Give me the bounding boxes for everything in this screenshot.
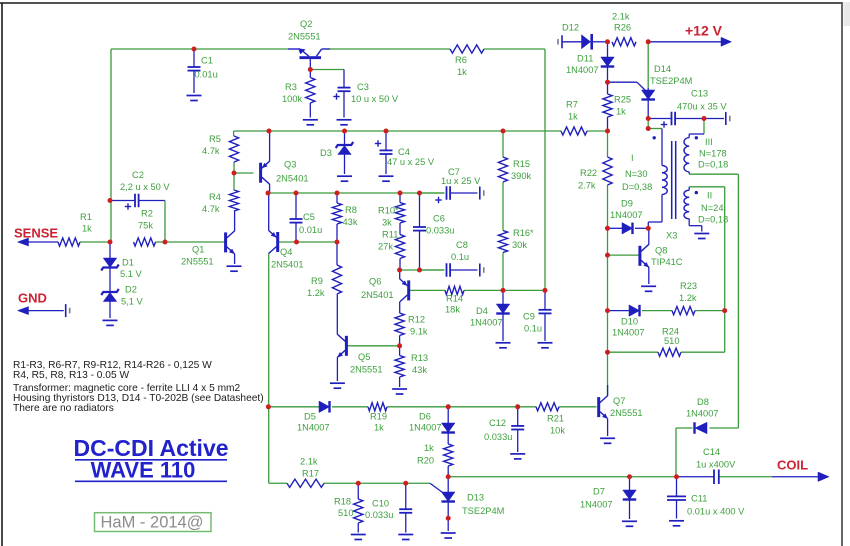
transistor Q2 2N5551 bbox=[288, 49, 322, 60]
svg-text:1N4007: 1N4007 bbox=[297, 423, 330, 433]
svg-text:2.1k: 2.1k bbox=[612, 12, 630, 22]
svg-text:2.1k: 2.1k bbox=[300, 457, 318, 467]
wire C10 x405.75 bbox=[405, 483, 407, 532]
node R14 R16 bbox=[501, 288, 506, 293]
capacitor C14 bbox=[714, 470, 719, 485]
resistor R24 510 bbox=[658, 348, 681, 356]
svg-text:5,1 V: 5,1 V bbox=[121, 297, 144, 307]
resistor R11 27k bbox=[395, 235, 404, 259]
wire C8 row bbox=[420, 269, 478, 271]
wire Q7 collector bbox=[607, 385, 609, 396]
resistor R5 4.7k bbox=[229, 136, 238, 162]
svg-text:R25: R25 bbox=[614, 95, 631, 105]
svg-text:R21: R21 bbox=[547, 414, 564, 424]
svg-text:COIL: COIL bbox=[777, 458, 808, 473]
node R26 plus12 bbox=[646, 39, 651, 44]
svg-text:1N4007: 1N4007 bbox=[409, 423, 442, 433]
wire Q3 base bbox=[234, 172, 254, 174]
wire Q4 collector long x268.7 bbox=[268, 253, 270, 406]
ground C11 bbox=[669, 521, 684, 526]
wire Q4 emitter up x268.7 bbox=[268, 193, 270, 231]
node R8 bottom bbox=[335, 240, 340, 245]
resistor R1 1k bbox=[58, 238, 80, 246]
wire R12 x399.6 bbox=[399, 302, 401, 346]
wire C12 x517.7 bbox=[517, 407, 519, 452]
svg-text:D3: D3 bbox=[320, 148, 332, 158]
node D12 R26 bbox=[605, 39, 610, 44]
terminal D12 input bbox=[558, 35, 562, 48]
svg-text:1u x 25 V: 1u x 25 V bbox=[441, 176, 481, 186]
node D9 left bbox=[605, 226, 610, 231]
svg-text:2N5551: 2N5551 bbox=[610, 408, 643, 418]
ground C12 bbox=[510, 454, 525, 459]
svg-text:47 u x 25 V: 47 u x 25 V bbox=[387, 157, 435, 167]
wire D1D2 x110 bbox=[109, 242, 111, 318]
node rail131 R15 bbox=[501, 129, 506, 134]
node sense R1 bbox=[108, 240, 113, 245]
svg-text:0.01u x 400 V: 0.01u x 400 V bbox=[687, 507, 745, 517]
svg-text:R13: R13 bbox=[411, 353, 428, 363]
wire Q1 collector bbox=[234, 211, 236, 231]
wire R9 x338 bbox=[336, 242, 338, 334]
label SENSE bbox=[14, 226, 58, 241]
svg-text:2N5401: 2N5401 bbox=[276, 174, 309, 184]
svg-text:C3: C3 bbox=[357, 82, 369, 92]
wire winding I feed bbox=[648, 129, 662, 166]
svg-text:390k: 390k bbox=[511, 171, 532, 181]
capacitor C3 electrolytic bbox=[333, 88, 350, 100]
svg-text:0.033u: 0.033u bbox=[365, 510, 393, 520]
wire winding III bottom bbox=[689, 172, 738, 428]
svg-text:1.2k: 1.2k bbox=[307, 288, 325, 298]
capacitor C7 electrolytic bbox=[435, 186, 450, 203]
svg-text:R2: R2 bbox=[141, 209, 153, 219]
svg-text:C13: C13 bbox=[691, 89, 708, 99]
wire main vertical x607.5 bbox=[607, 42, 609, 396]
transistor Q1 2N5551 bbox=[224, 231, 235, 254]
node D11 R25 bbox=[605, 80, 610, 85]
node rail131 R25 bbox=[605, 129, 610, 134]
wire plus12 bbox=[648, 41, 721, 43]
ground D4 bbox=[496, 343, 511, 348]
wire C11 x676.5 bbox=[676, 477, 678, 519]
svg-text:D2: D2 bbox=[125, 285, 137, 295]
resistor R2 75k bbox=[134, 238, 156, 246]
diode D7 1N4007 bbox=[623, 490, 637, 500]
wire C4 x386 bbox=[385, 131, 387, 174]
ground D1 D2 bbox=[103, 320, 118, 325]
svg-text:C9: C9 bbox=[523, 312, 535, 322]
capacitor C6 bbox=[413, 227, 426, 231]
svg-text:1N4007: 1N4007 bbox=[612, 328, 645, 338]
wire rail y193 bbox=[268, 192, 444, 194]
node rail193 R10 bbox=[398, 191, 403, 196]
capacitor C9 bbox=[539, 310, 552, 314]
arrow SENSE bbox=[18, 238, 29, 246]
svg-text:II: II bbox=[707, 191, 712, 201]
svg-text:4.7k: 4.7k bbox=[202, 204, 220, 214]
svg-text:0.1u: 0.1u bbox=[524, 324, 542, 334]
svg-text:1N4007: 1N4007 bbox=[580, 500, 613, 510]
svg-text:R7: R7 bbox=[566, 100, 578, 110]
wire left vertical x111 bbox=[110, 49, 112, 242]
wire C6 x419 bbox=[419, 193, 421, 270]
diode D12 bbox=[582, 34, 592, 50]
svg-text:R9: R9 bbox=[311, 276, 323, 286]
svg-text:+12 V: +12 V bbox=[685, 23, 723, 39]
diode D9 1N4007 bbox=[622, 223, 633, 235]
ground D13 bbox=[441, 533, 456, 538]
wire rail y406.8 bbox=[268, 406, 596, 408]
resistor R23 1.2k bbox=[672, 307, 695, 315]
wire R5R4 chain x234 bbox=[233, 131, 235, 190]
wire Q3 collector lead bbox=[269, 184, 271, 193]
capacitor C13 electrolytic bbox=[661, 112, 675, 128]
diode D4 1N4007 bbox=[496, 304, 510, 314]
svg-text:1k: 1k bbox=[457, 67, 467, 77]
ground Q8 bbox=[641, 286, 656, 291]
wire Q3 emitter lead bbox=[269, 131, 271, 162]
wire winding II bottom bbox=[689, 219, 702, 232]
resistor R6 1k bbox=[450, 45, 484, 53]
svg-text:D13: D13 bbox=[467, 493, 484, 503]
ground Q1 bbox=[227, 266, 242, 271]
svg-text:2N5551: 2N5551 bbox=[288, 32, 321, 42]
svg-text:2.7k: 2.7k bbox=[578, 181, 596, 191]
resistor R26 2.1k bbox=[612, 38, 636, 46]
ground D3 bbox=[337, 176, 352, 181]
polarity dot winding III bbox=[695, 136, 698, 139]
resistor R22 2.7k bbox=[603, 157, 612, 185]
svg-text:C6: C6 bbox=[433, 214, 445, 224]
svg-text:TIP41C: TIP41C bbox=[651, 257, 683, 267]
svg-text:2,2 u x 50 V: 2,2 u x 50 V bbox=[120, 182, 170, 192]
wire Q6 emitter up bbox=[399, 270, 401, 279]
svg-text:10k: 10k bbox=[550, 426, 565, 436]
wire C3 row bbox=[310, 70, 344, 118]
wire C2 row bbox=[110, 201, 165, 243]
svg-text:D12: D12 bbox=[562, 23, 579, 33]
svg-text:D8: D8 bbox=[697, 397, 709, 407]
node R14 C9 bbox=[543, 288, 548, 293]
node rail477 C11 bbox=[674, 474, 679, 479]
transistor Q6 2N5401 bbox=[400, 279, 411, 302]
node D10 left bbox=[605, 308, 610, 313]
resistor R10 3k bbox=[395, 203, 404, 224]
svg-text:2N5401: 2N5401 bbox=[271, 260, 304, 270]
svg-text:D5: D5 bbox=[304, 412, 316, 422]
ground Q5 bbox=[330, 383, 345, 388]
node rail131 C4 bbox=[384, 129, 389, 134]
node Q5 base R13 bbox=[397, 343, 402, 348]
svg-text:Q4: Q4 bbox=[280, 247, 292, 257]
wire Q6 base wire bbox=[410, 289, 445, 291]
svg-text:0.033u: 0.033u bbox=[484, 432, 512, 442]
node rail406 left bbox=[266, 404, 271, 409]
svg-text:Q7: Q7 bbox=[613, 396, 625, 406]
svg-text:C5: C5 bbox=[303, 212, 315, 222]
svg-text:R26: R26 bbox=[614, 23, 631, 33]
svg-text:SENSE: SENSE bbox=[14, 226, 58, 241]
annotation text block bbox=[13, 360, 264, 414]
wire D4 x503 bbox=[502, 290, 504, 341]
svg-text:HaM - 2014@: HaM - 2014@ bbox=[101, 514, 204, 532]
transformer winding II bbox=[684, 190, 689, 219]
arrow plus12 bbox=[721, 37, 732, 46]
wire D13 gate bbox=[430, 483, 444, 493]
wire D12 lead bbox=[562, 41, 608, 43]
resistor R8 43k bbox=[332, 203, 341, 224]
transistor Q7 2N5551 bbox=[597, 396, 608, 419]
svg-text:R1: R1 bbox=[80, 212, 92, 222]
svg-text:27k: 27k bbox=[378, 242, 393, 252]
wire R18 x358.25 bbox=[357, 483, 359, 532]
svg-text:C2: C2 bbox=[132, 170, 144, 180]
transistor Q8 TIP41C bbox=[638, 244, 649, 267]
diode D1 zener 5.1V bbox=[101, 258, 119, 271]
wire rail y483.25 bbox=[269, 407, 430, 483]
resistor R21 10k bbox=[536, 403, 559, 411]
svg-text:100k: 100k bbox=[282, 94, 303, 104]
node rail477 D7 bbox=[627, 474, 632, 479]
wire R24 row bbox=[608, 311, 725, 353]
svg-text:470u x 35 V: 470u x 35 V bbox=[677, 102, 727, 112]
resistor R18 510 bbox=[354, 499, 363, 523]
svg-text:Q1: Q1 bbox=[192, 245, 204, 255]
resistor R14 18k bbox=[445, 286, 464, 294]
transformer winding I bbox=[662, 166, 667, 195]
node C13 left bbox=[646, 116, 651, 121]
node R5 Q3base bbox=[232, 171, 237, 176]
svg-text:R22: R22 bbox=[580, 168, 597, 178]
wire Q8 collector bbox=[648, 228, 650, 244]
svg-text:X3: X3 bbox=[666, 231, 677, 241]
svg-text:2N5551: 2N5551 bbox=[181, 257, 214, 267]
svg-text:1k: 1k bbox=[82, 224, 92, 234]
wire C7 row bbox=[420, 192, 478, 194]
stamp HaM 2014 bbox=[95, 513, 212, 532]
ground R18 bbox=[351, 535, 366, 540]
svg-text:C8: C8 bbox=[456, 240, 468, 250]
svg-text:Q2: Q2 bbox=[300, 19, 312, 29]
transistor Q4 2N5401 bbox=[269, 231, 280, 254]
svg-text:D1: D1 bbox=[122, 258, 134, 268]
svg-text:43k: 43k bbox=[412, 365, 427, 375]
svg-text:43k: 43k bbox=[343, 217, 358, 227]
wire D13 x448.2 bbox=[447, 477, 449, 531]
node rail483 C10 bbox=[403, 481, 408, 486]
svg-text:0.01u: 0.01u bbox=[299, 225, 322, 235]
diode D11 1N4007 bbox=[601, 57, 615, 67]
ground R13 bbox=[392, 389, 407, 394]
svg-text:0.1u: 0.1u bbox=[451, 252, 469, 262]
capacitor C8 bbox=[447, 263, 451, 277]
diode D14 TSE2P4M thyristor bbox=[641, 90, 655, 100]
wire R10R11 x400 bbox=[399, 193, 401, 270]
wire D8 row bbox=[676, 428, 738, 477]
node R23 right bbox=[722, 308, 727, 313]
node D13 cathode bbox=[446, 516, 451, 521]
resistor R16 30k bbox=[498, 231, 507, 253]
svg-text:D6: D6 bbox=[419, 412, 431, 422]
svg-text:GND: GND bbox=[18, 291, 47, 306]
svg-text:C12: C12 bbox=[489, 418, 506, 428]
wire rail y242 mid bbox=[297, 241, 338, 243]
svg-text:R14: R14 bbox=[446, 294, 463, 304]
svg-text:2N5551: 2N5551 bbox=[350, 365, 383, 375]
svg-text:Q3: Q3 bbox=[284, 160, 296, 170]
capacitor C11 bbox=[667, 496, 686, 500]
wire x648 dots link bbox=[647, 119, 649, 129]
capacitor C4 electrolytic bbox=[375, 140, 393, 154]
wire D14 gate bbox=[608, 82, 646, 90]
node C5 bottom bbox=[294, 240, 299, 245]
diode D5 1N4007 bbox=[319, 401, 330, 413]
label COIL bbox=[777, 458, 808, 473]
node rail193 R8 bbox=[335, 191, 340, 196]
label GND bbox=[18, 291, 47, 306]
resistor R7 1k bbox=[561, 127, 587, 135]
node rail406 D6 bbox=[446, 404, 451, 409]
diode D8 1N4007 bbox=[695, 422, 708, 434]
node rail131 D3 bbox=[342, 129, 347, 134]
svg-text:Q6: Q6 bbox=[369, 277, 381, 287]
node rail483 R18 bbox=[356, 481, 361, 486]
capacitor C2 electrolytic bbox=[125, 194, 139, 210]
node Q8 base bbox=[605, 253, 610, 258]
svg-text:R4: R4 bbox=[209, 192, 221, 202]
svg-text:R11: R11 bbox=[382, 230, 398, 240]
wire R6 drop x545 bbox=[544, 49, 546, 290]
svg-text:III: III bbox=[705, 137, 713, 147]
title DC-CDI Active bbox=[73, 435, 228, 461]
resistor R20 1k bbox=[444, 444, 453, 466]
ground D7 bbox=[622, 521, 637, 526]
wire C5 x296 bbox=[295, 193, 297, 242]
svg-text:C10: C10 bbox=[372, 499, 389, 509]
svg-text:C1: C1 bbox=[201, 56, 213, 66]
svg-text:0.033u: 0.033u bbox=[426, 226, 454, 236]
wire Q1 emitter bbox=[234, 254, 236, 264]
wire C1 lead bbox=[193, 49, 195, 93]
node rail270 C6 bbox=[417, 268, 422, 273]
wire winding II top bbox=[689, 187, 725, 311]
svg-text:C4: C4 bbox=[398, 147, 410, 157]
svg-text:1k: 1k bbox=[424, 443, 434, 453]
svg-text:R8: R8 bbox=[345, 205, 357, 215]
terminal C13 out bbox=[726, 112, 730, 125]
svg-text:C11: C11 bbox=[691, 494, 707, 504]
svg-text:R3: R3 bbox=[285, 82, 297, 92]
capacitor C1 bbox=[188, 67, 201, 71]
node rail477 D13 bbox=[446, 474, 451, 479]
ground winding II bbox=[694, 234, 709, 239]
ground C9 bbox=[538, 343, 553, 348]
terminal C7 out bbox=[480, 187, 484, 200]
transformer winding III bbox=[684, 138, 689, 172]
svg-text:R19: R19 bbox=[370, 412, 387, 422]
wire top rail y49 bbox=[111, 48, 545, 50]
terminal GND bbox=[66, 304, 70, 317]
wire Q5 base wire bbox=[347, 345, 400, 347]
wire Q2 base drop bbox=[309, 59, 311, 70]
svg-text:C14: C14 bbox=[703, 447, 720, 457]
diode D6 1N4007 bbox=[441, 423, 455, 433]
node rail193 C5 bbox=[294, 191, 299, 196]
wire SENSE rail y242 bbox=[26, 241, 225, 243]
svg-text:0.01u: 0.01u bbox=[195, 70, 218, 80]
node rail270 Q6 bbox=[397, 268, 402, 273]
arrow COIL bbox=[818, 472, 829, 482]
svg-text:WAVE 110: WAVE 110 bbox=[91, 458, 196, 483]
svg-text:D=0,18: D=0,18 bbox=[698, 160, 728, 170]
resistor R17 2.1k bbox=[287, 479, 324, 487]
wire D14 chain x648.2 bbox=[647, 42, 649, 119]
svg-text:There are no radiators: There are no radiators bbox=[13, 403, 114, 414]
node rail193 Q3 bbox=[266, 191, 271, 196]
svg-text:D7: D7 bbox=[593, 487, 605, 497]
resistor R13 43k bbox=[395, 356, 404, 378]
wire rail y476.75 bbox=[448, 476, 818, 478]
wire C13 row bbox=[648, 118, 724, 120]
node rail131 Q3 bbox=[267, 129, 272, 134]
wire R13 x399.6 bbox=[399, 346, 401, 387]
resistor R19 1k bbox=[368, 403, 387, 411]
node C13 right bbox=[702, 116, 707, 121]
wire D6R20 x448.2 bbox=[447, 407, 449, 477]
svg-text:N=30: N=30 bbox=[625, 169, 647, 179]
transistor Q5 2N5551 bbox=[337, 334, 348, 357]
svg-text:1k: 1k bbox=[374, 423, 384, 433]
node sense R2 bbox=[163, 240, 168, 245]
wire Q2 collector lead bbox=[322, 48, 331, 50]
svg-text:3k: 3k bbox=[382, 218, 392, 228]
svg-text:R20: R20 bbox=[417, 456, 434, 466]
node D9 right bbox=[646, 226, 651, 231]
label +12 V bbox=[685, 23, 723, 39]
wire Q5 emitter ground lead bbox=[336, 357, 338, 381]
svg-text:4.7k: 4.7k bbox=[202, 146, 220, 156]
svg-text:TSE2P4M: TSE2P4M bbox=[462, 506, 504, 516]
svg-text:D9: D9 bbox=[621, 199, 633, 209]
terminal C8 out bbox=[480, 264, 484, 277]
ground R3 bbox=[303, 120, 318, 125]
wire rail y131 bbox=[234, 130, 608, 132]
transformer X3 core bbox=[672, 141, 676, 219]
resistor R15 390k bbox=[498, 157, 507, 182]
ground C10 bbox=[398, 535, 413, 540]
resistor R3 100k bbox=[306, 78, 315, 104]
svg-text:1N4007: 1N4007 bbox=[686, 409, 719, 419]
diode D13 TSE2P4M thyristor bbox=[441, 492, 455, 502]
transistor Q3 2N5401 bbox=[259, 161, 270, 184]
svg-text:R4, R5, R8, R13 - 0.05 W: R4, R5, R8, R13 - 0.05 W bbox=[13, 370, 129, 381]
ground C4 bbox=[379, 176, 394, 181]
svg-text:1N4007: 1N4007 bbox=[470, 318, 503, 328]
svg-text:N=178: N=178 bbox=[699, 149, 727, 159]
node rail193 C6 bbox=[417, 191, 422, 196]
diode D2 zener 5.1V bbox=[101, 289, 119, 302]
node Q2 base bbox=[308, 67, 313, 72]
svg-text:1k: 1k bbox=[568, 112, 578, 122]
resistor R25 1k bbox=[603, 94, 612, 117]
svg-text:I: I bbox=[631, 153, 634, 163]
wire Q7 emitter bbox=[607, 419, 609, 436]
resistor R9 1.2k bbox=[332, 265, 341, 294]
svg-text:R10*: R10* bbox=[378, 206, 399, 216]
svg-text:510: 510 bbox=[664, 336, 680, 346]
svg-text:75k: 75k bbox=[138, 221, 153, 231]
